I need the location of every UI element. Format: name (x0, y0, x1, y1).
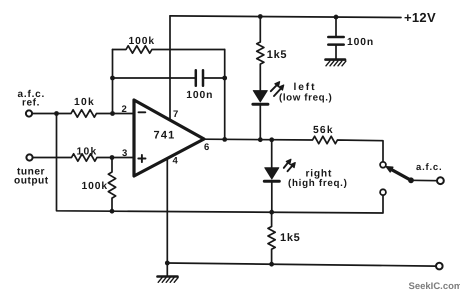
resistor 10k lower (tuner output to pin 3) (33, 154, 134, 161)
junction top rail / 1k5 (258, 14, 263, 19)
svg-text:+12V: +12V (404, 10, 436, 25)
resistor 10k upper (a.f.c. ref to pin 2) (33, 110, 134, 117)
resistor 1k5 upper (rail to left LED) (257, 17, 264, 91)
junction a.f.c. ref node (54, 111, 59, 116)
junction 1k5 / ground rail (269, 262, 274, 267)
svg-text:a.f.c.: a.f.c. (416, 162, 442, 173)
svg-text:output: output (14, 176, 49, 187)
junction cap row left (110, 76, 115, 81)
resistor 1k5 lower (right LED to ground) (268, 212, 275, 264)
svg-text:100k: 100k (129, 36, 156, 47)
svg-text:10k: 10k (77, 146, 98, 157)
junction cap row right (222, 76, 227, 81)
resistor 100k feedback (113, 46, 225, 53)
svg-text:10k: 10k (74, 97, 95, 108)
terminal a.f.c. ref. (26, 110, 32, 116)
svg-text:1k5: 1k5 (267, 49, 287, 61)
svg-text:4: 4 (173, 155, 179, 166)
svg-text:ref.: ref. (22, 98, 40, 109)
capacitor 100n decoupling (top right) (328, 17, 343, 59)
terminal bottom right (436, 263, 443, 270)
switch S1 upper contact (380, 162, 386, 168)
svg-text:741: 741 (154, 130, 176, 142)
ground symbol at decoupling capacitor (326, 60, 346, 66)
junction output / right LED (269, 137, 274, 142)
svg-text:6: 6 (204, 142, 209, 153)
resistor 100k lower (pin 3 to middle rail) (108, 158, 115, 212)
op-amp minus sign (139, 111, 146, 113)
svg-text:2: 2 (122, 104, 127, 115)
junction pin 3 node (110, 155, 115, 160)
svg-text:(low freq.): (low freq.) (279, 93, 332, 104)
junction output / feedback (222, 137, 227, 142)
junction pin 2 node (110, 111, 115, 116)
junction output / left LED (258, 137, 263, 142)
junction right LED / middle rail (269, 210, 274, 215)
svg-text:100k: 100k (82, 181, 109, 192)
wire feedback left vertical (pin 2 node) (112, 50, 114, 114)
svg-text:3: 3 (122, 148, 127, 159)
svg-text:100n: 100n (347, 37, 374, 48)
svg-text:(high freq.): (high freq.) (288, 178, 348, 189)
junction 100k bottom (110, 209, 115, 214)
wire pin 6 output row with resistor 56k (204, 136, 383, 162)
switch S1 lower contact (380, 189, 386, 195)
switch S1 arm with arrowhead (386, 167, 411, 181)
LED left (low freq.) (253, 82, 284, 140)
op-amp plus sign (138, 155, 145, 162)
ground symbol at pin 4 (158, 263, 179, 282)
LED right (high freq.) (264, 140, 295, 212)
wire +12V supply rail (170, 16, 401, 18)
junction pin4 / ground rail (165, 261, 170, 266)
svg-text:56k: 56k (313, 125, 334, 136)
wire feedback right vertical (output node) (224, 50, 226, 140)
svg-text:100n: 100n (186, 90, 213, 101)
svg-text:SeekIC.com: SeekIC.com (409, 281, 460, 292)
capacitor 100n feedback (113, 70, 225, 85)
svg-text:1k5: 1k5 (280, 232, 300, 244)
terminal tuner output (26, 154, 32, 160)
op-amp U1 741 (134, 100, 204, 176)
svg-text:left: left (294, 82, 317, 93)
switch S1 pivot (408, 177, 414, 183)
wire pin 7 to +12V rail (169, 16, 171, 119)
wire pin 4 to ground rail (166, 157, 168, 263)
wire switch pivot to a.f.c. terminal (411, 179, 437, 181)
terminal a.f.c. output (437, 177, 444, 184)
svg-text:7: 7 (173, 109, 178, 120)
wire a.f.c. ref node down and middle rail to switch lower contact (57, 114, 384, 214)
wire ground rail (167, 263, 436, 266)
junction top rail / 100n (334, 15, 339, 20)
